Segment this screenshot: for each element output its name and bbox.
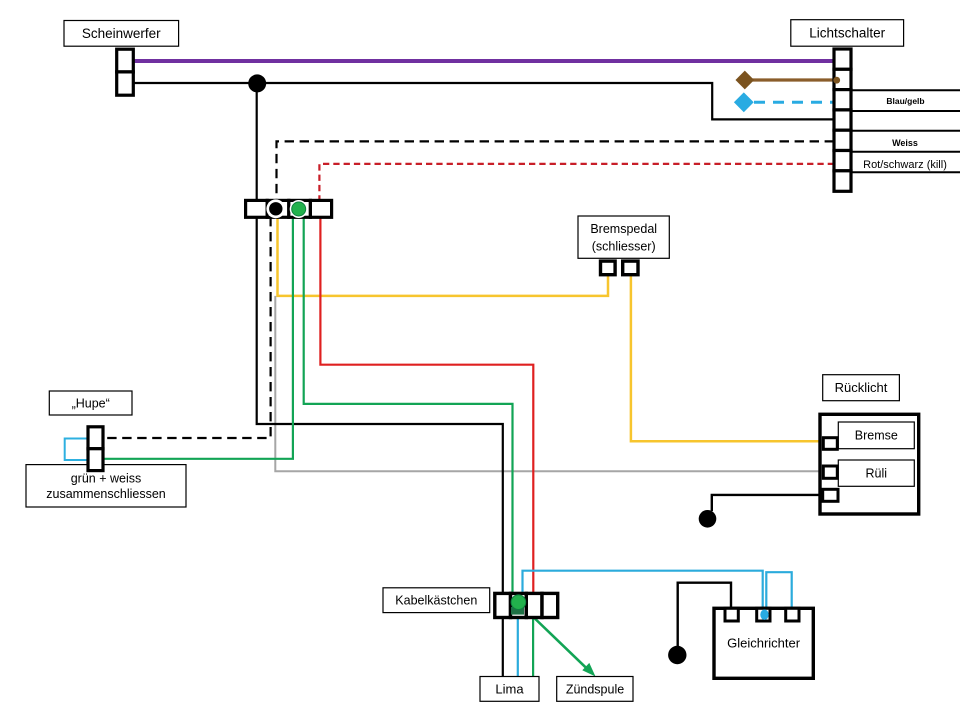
- wire black headlight to lightswitch: [133, 83, 834, 119]
- wire yellow connector to brake pedal: [278, 217, 609, 296]
- wire green arrow to ignition coil: [534, 618, 596, 677]
- svg-text:Bremse: Bremse: [855, 429, 898, 443]
- svg-text:Gleichrichter: Gleichrichter: [727, 636, 801, 651]
- node green contact dot: [290, 200, 308, 218]
- wire cyan Hupe jumper: [65, 439, 88, 461]
- svg-text:Scheinwerfer: Scheinwerfer: [82, 26, 161, 41]
- box Hupe label: [49, 391, 132, 415]
- box Bremse label: [838, 422, 914, 449]
- pin brake pedal 2: [623, 261, 638, 275]
- wire row line 5: [851, 171, 960, 173]
- svg-text:zusammenschliessen: zusammenschliessen: [46, 487, 166, 501]
- connector main 4-pin: [246, 200, 332, 217]
- wire black connector to Lima: [257, 217, 503, 677]
- node ground dot rectifier: [668, 646, 686, 664]
- connector Hupe 2-pin: [88, 427, 103, 471]
- wire green connector to cable box: [304, 217, 513, 599]
- svg-text:grün + weiss: grün + weiss: [71, 472, 142, 486]
- wire row line 2: [851, 110, 960, 112]
- pin tail light Rueli: [823, 466, 837, 478]
- wire cyan cable box to rectifier: [523, 571, 763, 612]
- wire cyan Lima to cable box: [517, 604, 519, 677]
- node brown wire end dot: [833, 77, 840, 84]
- wire black dashed connector to Hupe: [103, 217, 271, 438]
- svg-text:Kabelkästchen: Kabelkästchen: [395, 594, 477, 608]
- box tail light unit: [820, 414, 919, 514]
- wire black junction down to connector: [256, 83, 258, 200]
- box Lima label: [480, 677, 539, 702]
- pin brake pedal 1: [601, 261, 616, 275]
- wire yellow brake pedal to tail light Bremse: [631, 274, 823, 441]
- wire black rectifier to ground dot: [678, 583, 731, 647]
- wire black dashed lightswitch to connector: [277, 141, 835, 200]
- connector headlight 2-pin: [117, 49, 134, 95]
- node green pin in cable box: [511, 595, 526, 615]
- wire red dashed kill to connector: [319, 164, 834, 201]
- node black contact dot: [266, 199, 285, 218]
- wire row line 1: [851, 89, 960, 91]
- pin rectifier 2: [757, 608, 770, 621]
- box brake pedal label: [578, 216, 669, 258]
- svg-text:Rüli: Rüli: [866, 467, 888, 481]
- wire cyan rectifier jumper: [766, 572, 791, 612]
- box rectifier: [714, 608, 813, 678]
- wire cyan dashed Blau/gelb with diamond end: [734, 92, 834, 112]
- svg-text:„Hupe“: „Hupe“: [72, 397, 110, 411]
- svg-text:Lima: Lima: [495, 682, 524, 697]
- svg-text:Zündspule: Zündspule: [566, 683, 624, 697]
- wire gray to tail light Rueli: [275, 296, 823, 471]
- wire green cable box to Lima: [532, 618, 534, 677]
- node cyan dot rectifier pin 2: [760, 610, 768, 620]
- box Ruecklicht label: [823, 375, 900, 401]
- wire red connector to cable box: [320, 217, 533, 599]
- connector lightswitch 7-pin: [834, 49, 851, 191]
- box Rueli label: [838, 460, 914, 486]
- pin tail light Bremse: [823, 438, 837, 450]
- pin rectifier 3: [786, 608, 799, 621]
- svg-text:Bremspedal: Bremspedal: [590, 222, 657, 236]
- wire green connector to Hupe: [103, 217, 293, 459]
- svg-text:Rot/schwarz (kill): Rot/schwarz (kill): [863, 159, 947, 171]
- svg-text:Blau/gelb: Blau/gelb: [886, 96, 924, 106]
- wire row line 3: [851, 130, 960, 132]
- pin rectifier 1: [725, 608, 738, 621]
- node ground dot tail light: [699, 510, 717, 528]
- wire purple headlight supply: [133, 59, 834, 63]
- box ignition coil label: [557, 677, 633, 702]
- svg-text:Rücklicht: Rücklicht: [835, 380, 888, 395]
- svg-text:(schliesser): (schliesser): [592, 240, 656, 254]
- svg-text:Weiss: Weiss: [892, 138, 918, 148]
- box Scheinwerfer label: [64, 21, 179, 47]
- svg-text:Lichtschalter: Lichtschalter: [809, 26, 885, 41]
- wire row line 4: [851, 151, 960, 153]
- box gruen weiss note: [26, 465, 186, 507]
- wire black tail light to ground dot: [712, 495, 824, 511]
- box cable box label: [383, 588, 490, 613]
- connector cable box 4-pin: [495, 593, 558, 617]
- pin tail light ground: [823, 489, 838, 501]
- node junction dot headlight wire: [248, 74, 266, 92]
- box Lichtschalter label: [791, 20, 904, 47]
- wire brown with diamond end: [735, 71, 836, 90]
